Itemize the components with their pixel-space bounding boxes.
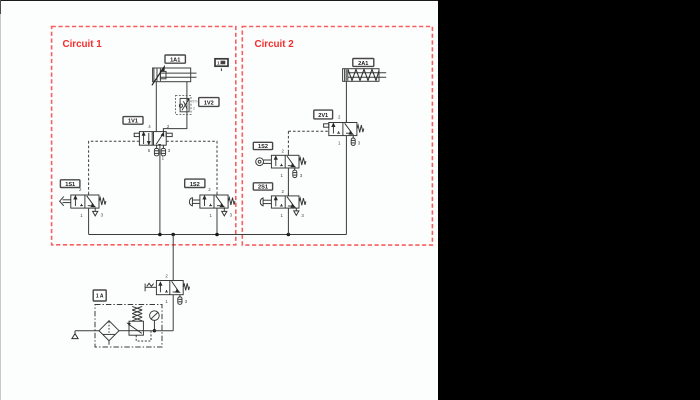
1V1 silencer port 5 [154, 145, 158, 156]
1V1 silencer port 3 [161, 145, 165, 156]
1V2 micro setting text [192, 100, 198, 111]
pressure gauge [150, 311, 160, 331]
svg-text:Circuit 1: Circuit 1 [63, 39, 103, 50]
circuit2 riser wire [345, 136, 347, 235]
svg-text:1A1: 1A1 [170, 57, 180, 63]
junction node [158, 233, 162, 237]
svg-text:1S1: 1S1 [65, 182, 75, 188]
cylinder 2A1 single acting [343, 69, 387, 82]
1S2 exhaust triangle [222, 208, 227, 216]
filter with separator [99, 321, 119, 345]
svg-text:1S2: 1S2 [258, 144, 268, 150]
wire cylinder right port down to 1V2 [186, 82, 188, 99]
adjustability arrow on 1A1 [152, 65, 165, 86]
supply inlet wire [75, 330, 99, 332]
label box 2S1 [253, 183, 272, 191]
2V1 port labels [338, 115, 361, 146]
1S1 port2 stub [88, 193, 90, 195]
black side panel [438, 0, 700, 400]
air source [72, 331, 78, 339]
label box 1V2 [199, 98, 219, 107]
label box 2V1 [314, 110, 333, 119]
svg-text:3: 3 [193, 107, 195, 111]
0V interior [159, 281, 180, 292]
shutoff valve 0V 3/2 [145, 281, 189, 295]
0V silencer port 3 [178, 295, 182, 305]
regulator outlet wire [143, 330, 173, 332]
1S1 exhaust triangle [93, 208, 98, 216]
junction node [171, 233, 175, 237]
wire filter to regulator [119, 330, 129, 332]
wire 1S2c2 to 2S1 [287, 168, 289, 196]
svg-text:1 A: 1 A [96, 294, 104, 300]
state display box [215, 59, 228, 66]
valve 1S2 roller 3/2 [256, 155, 306, 168]
1S2 port2 stub [216, 193, 218, 195]
svg-text:2A1: 2A1 [358, 61, 368, 67]
cylinder 1A1 [153, 68, 197, 82]
label box 1S1 [60, 180, 80, 188]
1V1 supply wire port 1 [159, 145, 161, 234]
svg-text:5%: 5% [192, 100, 198, 104]
2S1 interior [274, 197, 295, 208]
2S1 port2 stub [287, 193, 289, 196]
top window border [0, 0, 438, 2]
svg-text:1V1: 1V1 [128, 119, 138, 125]
regulator feedback dashes [136, 331, 151, 341]
1S1 port labels [79, 187, 104, 218]
svg-text:1: 1 [217, 61, 220, 66]
pilot line left to 1S1 [89, 141, 140, 193]
2V1 port2 stub tick [345, 120, 347, 123]
valve 2V1 3/2 pilot [324, 123, 364, 136]
svg-text:1S2: 1S2 [190, 182, 200, 188]
2V1 interior [332, 123, 353, 134]
valve 1S1 3/2 [60, 195, 106, 208]
2S1 port labels [281, 189, 305, 218]
1S1 supply wire down [88, 208, 90, 234]
1V1 interior arrows [142, 132, 164, 144]
2S1 exhaust triangle [294, 208, 299, 215]
1S2c2 interior [274, 156, 295, 167]
0V port labels [165, 274, 187, 304]
junction node [287, 233, 291, 237]
label box 1S2 [185, 179, 205, 188]
wire 1V2 to 1V1 port 2 [163, 112, 187, 132]
2S1 supply wire down [287, 208, 289, 234]
label box 2A1 [353, 59, 374, 67]
Circuit 2 frame [242, 27, 432, 246]
Circuit 1 frame [52, 27, 236, 245]
1S2 port labels [208, 187, 232, 218]
pilot line right to 1S2 [166, 141, 217, 193]
0V outlet wire down [172, 295, 174, 331]
label box 1V1 [123, 117, 143, 125]
1S1 interior [74, 196, 95, 207]
2V1 silencer port 3 [351, 136, 355, 146]
1S2c2 silencer port 3 [293, 168, 297, 178]
left window border [0, 0, 2, 14]
2V1 pilot dashed line [288, 130, 328, 132]
svg-text:Circuit 2: Circuit 2 [255, 39, 295, 50]
valve 1V1 5/2 body [134, 132, 172, 146]
1S2 supply wire down [216, 208, 218, 234]
1V1 port numbers [148, 124, 171, 161]
1S2 interior [203, 196, 224, 207]
manifold wire [89, 234, 347, 236]
svg-text:2S1: 2S1 [258, 185, 268, 191]
pressure regulator [126, 306, 143, 335]
svg-text:1V2: 1V2 [204, 100, 214, 106]
supply drop wire to shutoff valve [172, 235, 174, 281]
service unit enclosure [95, 305, 162, 348]
throttle check valve 1V2 [176, 96, 192, 115]
1S2c2 pilot wire up [287, 131, 289, 155]
label box 1A [93, 290, 106, 301]
gauge junction node [153, 329, 156, 332]
valve 2S1 button 3/2 [260, 196, 306, 208]
tick under display box [220, 68, 222, 71]
valve 1S2 3/2 [189, 195, 235, 208]
canvas background [0, 0, 438, 400]
1S2c2 port labels [281, 149, 303, 179]
wire 2A1 to 2V1 [345, 81, 347, 122]
svg-text:2V1: 2V1 [318, 113, 328, 119]
junction node [215, 233, 219, 237]
wire cylinder left port to 1V1 port 4 [155, 82, 157, 132]
label box 1A1 [165, 55, 185, 63]
label box 1S2 circuit2 [253, 142, 272, 150]
